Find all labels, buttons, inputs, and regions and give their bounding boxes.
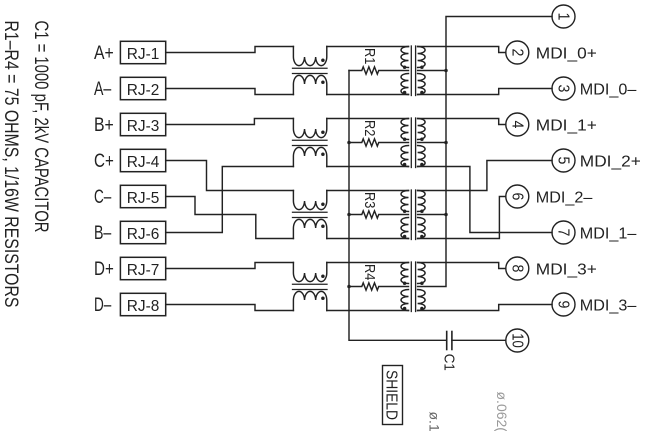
wire RJ-5 (C-) crossover to choke L3 bottom bbox=[166, 197, 294, 239]
svg-text:C1 = 1000 pF, 2kV CAPACITOR: C1 = 1000 pF, 2kV CAPACITOR bbox=[30, 21, 51, 233]
svg-text:RJ-3: RJ-3 bbox=[127, 118, 160, 135]
svg-text:C+: C+ bbox=[94, 151, 114, 172]
svg-text:MDI_2+: MDI_2+ bbox=[580, 153, 641, 170]
resistor R1 bbox=[349, 67, 409, 74]
connector pin box RJ-1 bbox=[120, 41, 165, 63]
wire choke L1 to transformer T1 primary bbox=[327, 47, 409, 95]
pin 1 circle bbox=[552, 5, 575, 28]
svg-text:R1–R4 = 75 OHMS, 1/16W RESISTO: R1–R4 = 75 OHMS, 1/16W RESISTORS bbox=[0, 21, 21, 308]
wire T3 secondary bottom to pin 6 bbox=[418, 197, 506, 239]
pin 9 circle bbox=[552, 293, 575, 316]
connector pin box RJ-6 bbox=[120, 221, 165, 243]
common-mode choke L1 bbox=[293, 47, 328, 95]
capacitor C1 bbox=[447, 332, 506, 350]
svg-text:R2: R2 bbox=[361, 120, 378, 136]
svg-text:RJ-1: RJ-1 bbox=[127, 46, 160, 63]
connector pin box RJ-4 bbox=[120, 149, 165, 171]
svg-text:1: 1 bbox=[555, 13, 572, 21]
transformer T4 bbox=[401, 262, 425, 312]
wire RJ-7 to choke L4 top bbox=[166, 263, 294, 269]
wire T2 secondary bottom to pin 7 bbox=[418, 167, 552, 233]
svg-text:MDI_0+: MDI_0+ bbox=[536, 45, 597, 62]
svg-text:A+: A+ bbox=[94, 43, 114, 64]
wire RJ-3 to choke L2 top bbox=[166, 119, 294, 125]
wire choke L3 to transformer T3 primary bbox=[327, 191, 409, 239]
svg-text:ø.062(1: ø.062(1 bbox=[494, 392, 510, 431]
common-mode choke L4 bbox=[293, 263, 328, 311]
svg-text:10: 10 bbox=[508, 333, 525, 348]
svg-text:3: 3 bbox=[555, 85, 572, 93]
pin 7 circle bbox=[552, 221, 575, 244]
wire T2 secondary center tap bbox=[418, 142, 446, 144]
common-mode choke L3 bbox=[293, 191, 328, 239]
pin 2 circle bbox=[506, 41, 529, 64]
svg-text:RJ-4: RJ-4 bbox=[127, 154, 160, 171]
transformer T3 bbox=[401, 190, 425, 240]
resistor R2 bbox=[349, 139, 409, 146]
pin 3 circle bbox=[552, 77, 575, 100]
wire RJ-6 (B-) crossover to choke L2 bottom bbox=[166, 167, 294, 233]
junction on center-tap bus at T3 bbox=[444, 213, 448, 217]
wire RJ-2 to choke L1 bottom bbox=[166, 89, 294, 95]
transformer T2 bbox=[401, 118, 425, 168]
connector pin box RJ-2 bbox=[120, 77, 165, 99]
svg-text:MDI_1+: MDI_1+ bbox=[536, 117, 597, 134]
wire T1 secondary center tap bbox=[418, 70, 446, 72]
wire T3 secondary top to pin 5 bbox=[418, 161, 552, 191]
junction on resistor bus at R3 bbox=[347, 213, 351, 217]
pin 10 circle bbox=[506, 329, 529, 352]
shield terminal box bbox=[383, 366, 403, 425]
svg-text:MDI_1–: MDI_1– bbox=[580, 225, 637, 242]
svg-text:2: 2 bbox=[508, 49, 525, 57]
svg-text:RJ-8: RJ-8 bbox=[127, 298, 160, 315]
wire: secondary center-tap bus to pin 1 bbox=[418, 17, 552, 287]
wire T2 secondary top to pin 4 bbox=[418, 119, 506, 125]
svg-text:R4: R4 bbox=[361, 264, 378, 280]
svg-text:4: 4 bbox=[508, 121, 525, 129]
junction on center-tap bus at T1 bbox=[444, 69, 448, 73]
junction on resistor bus at R2 bbox=[347, 141, 351, 145]
pin 6 circle bbox=[506, 185, 529, 208]
svg-text:R1: R1 bbox=[361, 48, 378, 64]
wire T4 secondary top to pin 8 bbox=[418, 263, 506, 269]
svg-text:6: 6 bbox=[508, 193, 525, 201]
connector pin box RJ-8 bbox=[120, 293, 165, 315]
wire RJ-4 (C+) crossover to choke L3 top bbox=[166, 161, 294, 191]
svg-text:SHIELD: SHIELD bbox=[383, 370, 400, 420]
wire choke L4 to transformer T4 primary bbox=[327, 263, 409, 311]
svg-text:RJ-7: RJ-7 bbox=[127, 262, 160, 279]
svg-text:MDI_2–: MDI_2– bbox=[536, 189, 593, 206]
svg-text:8: 8 bbox=[508, 265, 525, 273]
svg-text:5: 5 bbox=[555, 157, 572, 165]
junction on resistor bus at R4 bbox=[347, 285, 351, 289]
svg-text:B–: B– bbox=[94, 223, 112, 244]
wire RJ-1 to choke L1 top bbox=[166, 47, 294, 53]
common-mode choke L2 bbox=[293, 119, 328, 167]
svg-text:MDI_0–: MDI_0– bbox=[580, 81, 637, 98]
junction on center-tap bus at T2 bbox=[444, 141, 448, 145]
resistor R3 bbox=[349, 211, 409, 218]
resistor R4 bbox=[349, 283, 409, 290]
svg-text:D–: D– bbox=[94, 295, 112, 316]
connector pin box RJ-3 bbox=[120, 113, 165, 135]
wire T3 secondary center tap bbox=[418, 214, 446, 216]
svg-text:MDI_3–: MDI_3– bbox=[580, 297, 637, 314]
pin 4 circle bbox=[506, 113, 529, 136]
wire: resistor common bus to C1 bbox=[349, 71, 447, 341]
svg-text:RJ-5: RJ-5 bbox=[127, 190, 160, 207]
svg-text:ø.12: ø.12 bbox=[427, 412, 443, 431]
connector pin box RJ-7 bbox=[120, 257, 165, 279]
svg-text:C1: C1 bbox=[441, 354, 458, 371]
wire RJ-8 to choke L4 bottom bbox=[166, 305, 294, 311]
connector pin box RJ-5 bbox=[120, 185, 165, 207]
pin 8 circle bbox=[506, 257, 529, 280]
svg-text:RJ-6: RJ-6 bbox=[127, 226, 160, 243]
wire T1 secondary top to pin 2 bbox=[418, 47, 506, 53]
wire T4 secondary bottom to pin 9 bbox=[418, 305, 552, 311]
svg-text:RJ-2: RJ-2 bbox=[127, 82, 160, 99]
svg-text:7: 7 bbox=[555, 229, 572, 237]
svg-text:9: 9 bbox=[555, 301, 572, 309]
svg-text:A–: A– bbox=[94, 79, 112, 100]
svg-text:C–: C– bbox=[94, 187, 112, 208]
pin 5 circle bbox=[552, 149, 575, 172]
svg-text:MDI_3+: MDI_3+ bbox=[536, 261, 597, 278]
svg-text:R3: R3 bbox=[361, 192, 378, 208]
wire T1 secondary bottom to pin 3 bbox=[418, 89, 552, 95]
svg-text:B+: B+ bbox=[94, 115, 114, 136]
wire choke L2 to transformer T2 primary bbox=[327, 119, 409, 167]
svg-text:D+: D+ bbox=[94, 259, 114, 280]
transformer T1 bbox=[401, 46, 425, 96]
